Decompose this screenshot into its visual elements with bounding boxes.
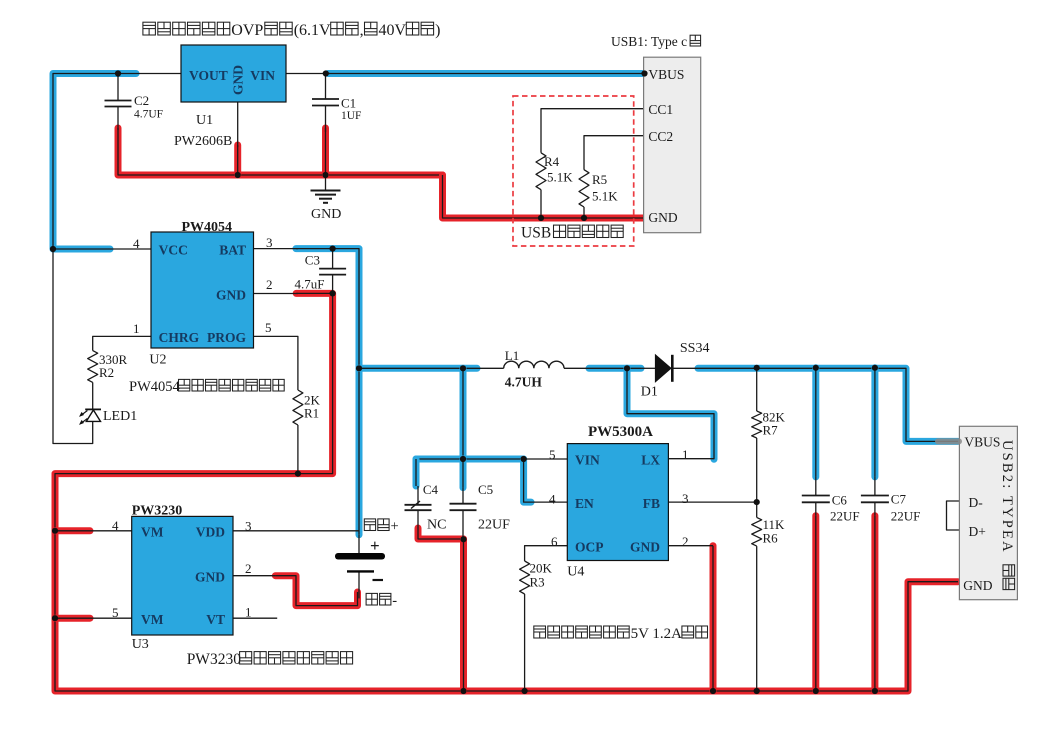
svg-text:22UF: 22UF	[891, 509, 921, 524]
svg-text:3: 3	[682, 491, 689, 506]
svg-text:+: +	[370, 536, 380, 555]
svg-text:5: 5	[112, 605, 119, 620]
svg-text:6: 6	[551, 534, 558, 549]
svg-text:USB1: Type c: USB1: Type c	[611, 34, 687, 49]
svg-text:D1: D1	[641, 385, 658, 400]
svg-text:2: 2	[245, 561, 252, 576]
svg-text:VT: VT	[206, 612, 225, 627]
svg-text:5: 5	[265, 320, 272, 335]
svg-text:R5: R5	[592, 172, 607, 187]
svg-text:U1: U1	[196, 113, 213, 128]
svg-text:4: 4	[549, 492, 556, 507]
svg-text:VBUS: VBUS	[648, 67, 684, 82]
svg-text:R4: R4	[544, 154, 560, 169]
svg-text:6.1V: 6.1V	[299, 22, 331, 39]
svg-text:PW3230: PW3230	[132, 504, 183, 519]
svg-text:USB2: TYPEA: USB2: TYPEA	[999, 440, 1015, 554]
svg-text:3: 3	[266, 235, 273, 250]
svg-text:22UF: 22UF	[478, 518, 510, 533]
svg-text:4.7uF: 4.7uF	[295, 277, 325, 292]
svg-text:C4: C4	[423, 482, 439, 497]
svg-text:CC1: CC1	[648, 102, 673, 117]
svg-text:5V 1.2A: 5V 1.2A	[631, 626, 683, 642]
svg-text:5.1K: 5.1K	[592, 189, 618, 204]
svg-text:GND: GND	[231, 65, 246, 95]
svg-text:R1: R1	[304, 406, 319, 421]
svg-text:,: ,	[360, 22, 364, 39]
svg-text:C2: C2	[134, 93, 149, 108]
svg-text:NC: NC	[427, 518, 446, 533]
svg-text:VIN: VIN	[250, 68, 275, 83]
svg-text:1UF: 1UF	[341, 110, 361, 122]
svg-text:GND: GND	[216, 288, 246, 303]
svg-text:D-: D-	[969, 495, 984, 510]
svg-text:4.7UH: 4.7UH	[505, 375, 543, 390]
svg-text:R3: R3	[530, 575, 545, 590]
svg-text:20K: 20K	[530, 561, 553, 576]
svg-text:U2: U2	[149, 353, 166, 368]
svg-text:R6: R6	[763, 531, 779, 546]
svg-text:1: 1	[133, 321, 140, 336]
svg-text:4: 4	[112, 518, 119, 533]
svg-text:GND: GND	[648, 210, 677, 225]
svg-text:OCP: OCP	[575, 540, 604, 555]
svg-text:VM: VM	[141, 612, 164, 627]
svg-text:2: 2	[682, 534, 689, 549]
svg-text:SS34: SS34	[680, 341, 710, 356]
svg-text:VDD: VDD	[196, 525, 225, 540]
svg-text:C7: C7	[891, 492, 907, 507]
svg-text:FB: FB	[643, 496, 660, 511]
svg-text:5: 5	[549, 447, 556, 462]
svg-text:+: +	[391, 519, 399, 535]
svg-text:): )	[435, 22, 440, 39]
svg-text:VOUT: VOUT	[189, 68, 228, 83]
svg-text:PROG: PROG	[207, 330, 246, 345]
svg-text:2: 2	[266, 277, 273, 292]
svg-text:5.1K: 5.1K	[547, 170, 573, 185]
svg-text:PW4054: PW4054	[129, 379, 181, 395]
svg-text:LED1: LED1	[103, 409, 137, 424]
svg-text:GND: GND	[311, 207, 341, 222]
svg-text:22UF: 22UF	[830, 509, 860, 524]
svg-text:LX: LX	[641, 453, 660, 468]
svg-text:U4: U4	[567, 565, 584, 580]
svg-text:GND: GND	[630, 540, 660, 555]
svg-text:R2: R2	[99, 365, 114, 380]
svg-text:4.7UF: 4.7UF	[134, 109, 163, 121]
svg-text:EN: EN	[575, 496, 594, 511]
svg-text:VM: VM	[141, 525, 164, 540]
svg-text:GND: GND	[963, 578, 992, 593]
svg-text:-: -	[392, 593, 397, 609]
svg-text:R7: R7	[763, 423, 779, 438]
svg-text:C1: C1	[341, 96, 356, 111]
svg-text:40V: 40V	[379, 22, 407, 39]
svg-text:USB: USB	[521, 225, 551, 242]
svg-text:D+: D+	[969, 524, 986, 539]
svg-text:PW4054: PW4054	[182, 220, 233, 235]
svg-text:C3: C3	[305, 253, 320, 268]
svg-text:PW3230: PW3230	[187, 651, 242, 668]
svg-text:VIN: VIN	[575, 453, 600, 468]
svg-text:OVP: OVP	[231, 22, 263, 39]
svg-text:3: 3	[245, 519, 252, 534]
svg-text:4: 4	[133, 236, 140, 251]
svg-text:VBUS: VBUS	[964, 435, 1000, 450]
svg-text:U3: U3	[132, 637, 149, 652]
svg-text:L1: L1	[505, 348, 519, 363]
svg-text:1: 1	[682, 447, 689, 462]
svg-text:PW2606B: PW2606B	[174, 134, 232, 149]
svg-text:CHRG: CHRG	[159, 330, 200, 345]
svg-text:BAT: BAT	[219, 243, 246, 258]
svg-text:1: 1	[245, 605, 252, 620]
svg-text:CC2: CC2	[648, 129, 673, 144]
svg-text:C5: C5	[478, 482, 493, 497]
svg-text:PW5300A: PW5300A	[588, 424, 653, 440]
svg-text:VCC: VCC	[159, 243, 188, 258]
svg-text:C6: C6	[832, 493, 848, 508]
svg-text:GND: GND	[195, 570, 225, 585]
